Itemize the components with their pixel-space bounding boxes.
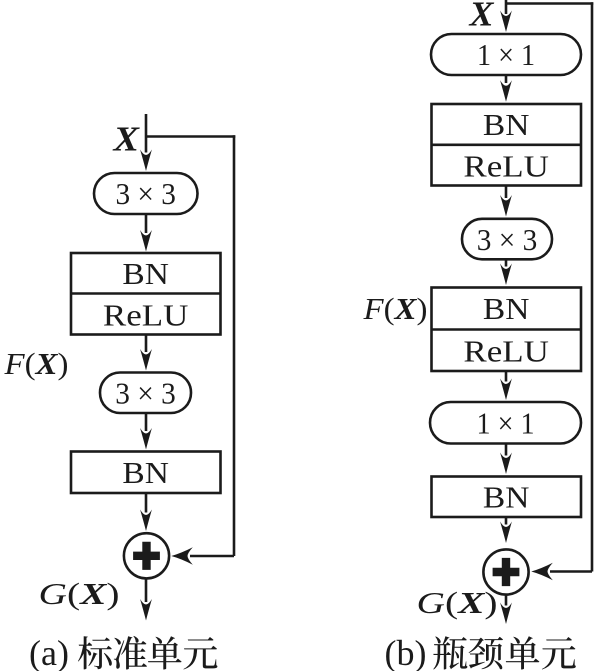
conv box 3x3 first (a): [94, 173, 198, 214]
BN box (a): [71, 452, 221, 494]
conv box 3x3 (b): [462, 219, 552, 259]
svg-text:(a): (a): [29, 633, 69, 671]
BN/ReLU box 1 (b): [432, 104, 582, 186]
wire: skip vertical (b): [591, 2, 594, 571]
wire: skip vertical (a): [233, 135, 236, 556]
wire (b) adder output: [505, 595, 508, 606]
caption (b) hanzi 瓶颈单元: [433, 636, 467, 669]
adder plus (a): [133, 542, 160, 570]
svg-text:3 × 3: 3 × 3: [477, 222, 538, 257]
arrowhead input (b): [500, 11, 512, 33]
svg-text:1 × 1: 1 × 1: [477, 406, 535, 441]
BN/ReLU box 2 (b): [432, 288, 582, 372]
wire (a) conv1 to bn: [145, 214, 148, 233]
svg-text:1 × 1: 1 × 1: [477, 37, 535, 72]
wire (b) relu2 to conv3: [505, 371, 508, 382]
svg-text:G(X): G(X): [417, 585, 498, 620]
wire: skip into adder (a): [190, 555, 234, 558]
wire: skip into adder (b): [550, 570, 592, 573]
svg-text:BN: BN: [483, 107, 530, 142]
svg-text:F(X): F(X): [3, 346, 68, 381]
svg-text:BN: BN: [122, 256, 169, 291]
arrowhead (b) into BN/ReLU 2: [500, 264, 512, 286]
wire (a) relu to conv2: [145, 335, 148, 353]
arrowhead (a) output: [140, 599, 152, 621]
adder circle (b): [483, 549, 528, 594]
arrowhead (a) into BN2: [140, 428, 152, 450]
arrowhead (b) output: [500, 603, 512, 625]
svg-text:ReLU: ReLU: [463, 149, 549, 184]
wire (b) conv1 to bn1: [505, 75, 508, 83]
arrowhead (b) into conv 1x1 second: [500, 379, 512, 401]
arrowhead (a) into conv2: [140, 349, 152, 371]
svg-text:ReLU: ReLU: [103, 298, 189, 333]
BN box (b): [432, 477, 582, 518]
wire: skip branch horizontal (a): [146, 135, 235, 138]
arrowhead input (a): [140, 150, 152, 172]
adder circle (a): [124, 533, 169, 578]
wire: skip branch horizontal (b): [506, 2, 593, 5]
arrowhead (a) into adder top: [140, 510, 152, 532]
wire (a) adder output: [145, 578, 148, 602]
arrowhead (a) into BN/ReLU: [140, 230, 152, 252]
wire: input stem (b): [505, 0, 508, 14]
caption (a) hanzi 标准单元: [78, 636, 112, 669]
svg-text:X: X: [468, 0, 495, 34]
BN/ReLU box (a): [71, 253, 221, 335]
conv box 3x3 second (a): [100, 373, 191, 414]
adder plus (b): [493, 558, 520, 586]
arrowhead (b) into conv 3x3: [500, 195, 512, 217]
svg-text:G(X): G(X): [39, 576, 120, 611]
wire (b) bn1 to conv2: [505, 186, 508, 199]
wire (b) conv3 to bn3: [505, 444, 508, 456]
wire (b) conv2 to bn2: [505, 259, 508, 266]
svg-text:3 × 3: 3 × 3: [115, 176, 176, 211]
arrowhead into adder (b): [531, 563, 553, 580]
svg-text:X: X: [112, 120, 140, 159]
conv box 1x1 second (b): [430, 402, 581, 444]
wire (a) conv2 to bn2: [145, 413, 148, 431]
arrowhead (b) into BN/ReLU 1: [500, 80, 512, 102]
svg-text:BN: BN: [483, 291, 530, 326]
svg-text:ReLU: ReLU: [463, 334, 549, 369]
arrowhead (b) into BN 3: [500, 453, 512, 475]
arrowhead (b) into adder top: [500, 522, 512, 544]
svg-text:3 × 3: 3 × 3: [115, 376, 176, 411]
svg-text:F(X): F(X): [362, 291, 427, 326]
wire (b) bn3 to adder: [505, 517, 508, 525]
svg-text:BN: BN: [122, 455, 169, 490]
arrowhead into adder (a): [171, 547, 193, 564]
svg-text:BN: BN: [483, 480, 530, 515]
conv box 1x1 first (b): [431, 34, 581, 75]
wire: input stem (a): [145, 114, 148, 153]
svg-text:(b): (b): [385, 633, 427, 671]
wire (a) bn2 to adder: [145, 493, 148, 513]
